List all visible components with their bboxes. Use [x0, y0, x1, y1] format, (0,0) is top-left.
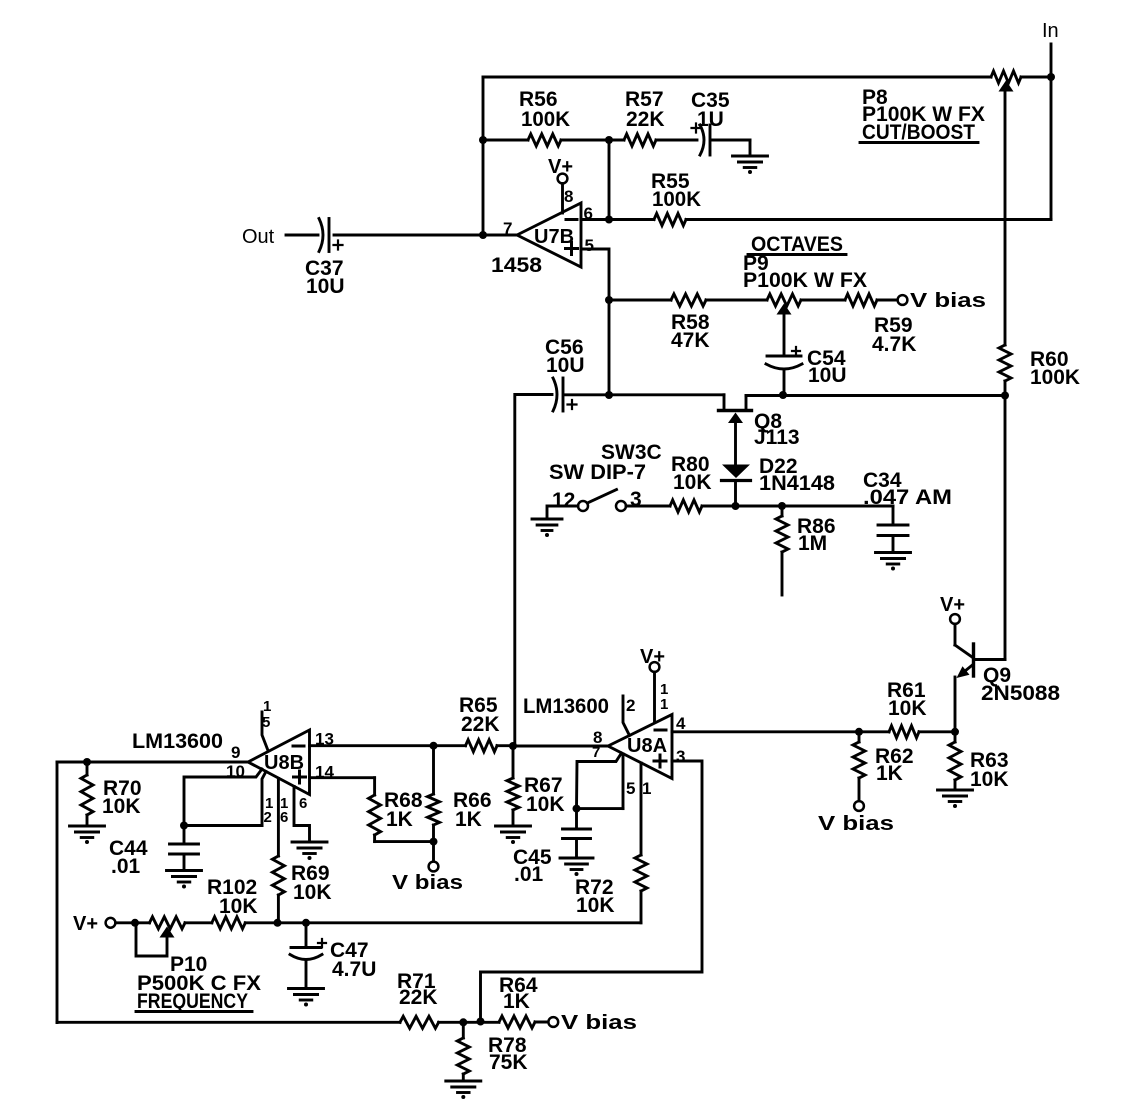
- resistor R63: [954, 732, 957, 742]
- svg-text:22K: 22K: [461, 713, 500, 736]
- svg-text:10K: 10K: [576, 894, 615, 917]
- svg-text:1: 1: [642, 779, 651, 798]
- svg-text:.01: .01: [514, 863, 544, 886]
- svg-text:V bias: V bias: [392, 872, 463, 894]
- resistor R72: [635, 855, 647, 891]
- wire R56/R57 junction down to pin6: [608, 140, 611, 220]
- wire In vertical: [1050, 44, 1053, 220]
- resistor R86: [776, 516, 788, 552]
- svg-text:1458: 1458: [491, 254, 542, 277]
- svg-text:1N4148: 1N4148: [759, 472, 835, 495]
- U8A pin 7 wire: [577, 753, 622, 809]
- svg-text:LM13600: LM13600: [523, 695, 609, 718]
- wire P10 wiper loop: [136, 923, 167, 956]
- svg-text:5: 5: [626, 779, 635, 798]
- wire main node y395: [564, 393, 725, 396]
- svg-text:22K: 22K: [399, 986, 438, 1009]
- resistor R57: [609, 139, 624, 142]
- capacitor C56: [553, 378, 557, 411]
- svg-text:3: 3: [676, 747, 685, 766]
- svg-text:100K: 100K: [1030, 366, 1080, 389]
- svg-text:2: 2: [626, 696, 635, 715]
- resistor R80: [626, 505, 670, 508]
- diode D22: [722, 465, 750, 479]
- svg-text:10K: 10K: [888, 697, 927, 720]
- svg-text:FREQUENCY: FREQUENCY: [137, 990, 248, 1013]
- capacitor C47: [305, 923, 308, 946]
- svg-text:5: 5: [262, 714, 270, 731]
- ground C35: [749, 140, 752, 156]
- svg-text:10K: 10K: [293, 881, 332, 904]
- resistor R59: [801, 299, 845, 302]
- svg-text:4.7K: 4.7K: [872, 333, 916, 356]
- resistor R56: [483, 139, 528, 142]
- left vertical wire: [56, 762, 59, 1023]
- U8B pin 10 wire to C44 node: [184, 769, 262, 826]
- wire left vertical from top wire: [482, 77, 485, 235]
- wire P8 wiper down to R60: [1004, 92, 1007, 346]
- capacitor C44: [183, 826, 186, 844]
- wire bottom rail: [57, 1021, 400, 1024]
- svg-text:7: 7: [592, 744, 600, 761]
- svg-text:8: 8: [564, 187, 573, 206]
- wire P9 wiper to C54: [783, 315, 786, 357]
- wire P10 to R102: [185, 921, 212, 924]
- capacitor C54: [792, 347, 800, 355]
- svg-text:CUT/BOOST: CUT/BOOST: [862, 121, 975, 144]
- op-amp U8A: [608, 715, 672, 779]
- svg-text:10U: 10U: [546, 354, 585, 377]
- wire R102 to R72: [245, 921, 641, 924]
- wire P8 to In junction: [1021, 76, 1051, 79]
- svg-text:1U: 1U: [697, 108, 724, 131]
- U8B pin 6 wire to ground: [294, 787, 310, 842]
- svg-text:47K: 47K: [671, 329, 710, 352]
- svg-text:1: 1: [660, 696, 668, 713]
- svg-text:V+: V+: [940, 594, 965, 616]
- potentiometer P10: [150, 917, 186, 929]
- wire V+ to P10: [116, 921, 150, 924]
- svg-text:10K: 10K: [673, 471, 712, 494]
- resistor R70: [86, 762, 89, 775]
- svg-text:P100K W FX: P100K W FX: [743, 269, 867, 292]
- node V bias at R59: [898, 295, 908, 305]
- op-amp U8B: [248, 730, 310, 795]
- U8A pin 1 wire to R72: [640, 763, 643, 855]
- wire U8B pin13 to R65: [310, 744, 466, 747]
- resistor R64: [499, 1016, 535, 1028]
- resistor R55: [581, 218, 654, 221]
- svg-text:2: 2: [264, 809, 272, 826]
- svg-text:1K: 1K: [503, 990, 530, 1013]
- resistor R62: [858, 732, 861, 742]
- U8B pin 15: [262, 712, 268, 751]
- wire top feedback: [483, 76, 991, 79]
- svg-text:10K: 10K: [970, 768, 1009, 791]
- svg-text:3: 3: [630, 488, 642, 511]
- resistor R66: [432, 746, 435, 794]
- resistor R60: [999, 345, 1011, 381]
- wire Out to C37: [286, 234, 318, 237]
- svg-text:1K: 1K: [876, 762, 903, 785]
- U8A pin 5 wire: [622, 754, 625, 809]
- transistor Q8 JFET: [723, 395, 726, 410]
- svg-text:6: 6: [299, 795, 307, 812]
- svg-text:10K: 10K: [102, 795, 141, 818]
- wire U7B pin5 down: [581, 249, 609, 395]
- potentiometer P8: [991, 71, 1021, 83]
- wire C56 left + vertical down: [515, 395, 552, 747]
- resistor R68: [373, 778, 376, 795]
- resistor R102: [212, 917, 245, 929]
- svg-text:1M: 1M: [798, 532, 827, 555]
- svg-text:9: 9: [231, 743, 240, 762]
- U8B pin 12 wire: [262, 772, 266, 826]
- U8B pin 16 wire to R69: [277, 779, 280, 857]
- svg-text:10U: 10U: [808, 364, 847, 387]
- svg-text:.01: .01: [111, 855, 141, 878]
- svg-text:10U: 10U: [306, 275, 345, 298]
- svg-text:J113: J113: [754, 426, 800, 449]
- svg-text:100K: 100K: [521, 108, 570, 131]
- svg-text:2N5088: 2N5088: [981, 682, 1060, 705]
- resistor R58: [609, 299, 671, 302]
- svg-text:V bias: V bias: [818, 813, 894, 835]
- U8A pin 2 stub: [623, 696, 630, 736]
- svg-text:5: 5: [585, 236, 594, 255]
- wire U8B pin14 to R68: [310, 776, 375, 779]
- resistor R78: [462, 1022, 465, 1038]
- svg-text:10K: 10K: [219, 895, 258, 918]
- svg-text:12: 12: [552, 489, 575, 512]
- svg-text:100K: 100K: [652, 188, 701, 211]
- resistor R65: [466, 740, 498, 752]
- svg-text:4: 4: [676, 714, 686, 733]
- capacitor C35: [692, 124, 701, 133]
- svg-text:V+: V+: [73, 913, 98, 935]
- svg-text:SW DIP-7: SW DIP-7: [549, 461, 646, 484]
- svg-text:1K: 1K: [455, 808, 482, 831]
- potentiometer P9: [767, 294, 801, 306]
- svg-text:1: 1: [263, 698, 271, 715]
- wire SW3C to ground: [547, 506, 578, 519]
- node V bias below R66: [432, 842, 435, 862]
- node V bias bottom: [548, 1017, 558, 1027]
- op-amp U7B: [517, 203, 581, 267]
- svg-text:75K: 75K: [489, 1051, 528, 1074]
- svg-text:22K: 22K: [626, 108, 665, 131]
- resistor R71: [400, 1016, 439, 1028]
- wire Q9 base to R60 line: [975, 658, 1005, 661]
- wire U8B output: [57, 761, 248, 764]
- svg-text:U7B: U7B: [534, 226, 574, 248]
- wire U8A pin3 loop: [481, 761, 703, 1022]
- wire C37 to U7B pin7: [334, 234, 517, 237]
- wire U8A pin4 to R61: [672, 730, 889, 733]
- svg-text:In: In: [1042, 20, 1059, 42]
- svg-text:.047 AM: .047 AM: [863, 486, 952, 509]
- svg-text:V bias: V bias: [910, 290, 986, 312]
- svg-text:1K: 1K: [386, 808, 413, 831]
- wire D22 node to C34: [736, 505, 894, 508]
- svg-text:Out: Out: [242, 226, 275, 248]
- wire R68 to V bias node: [375, 840, 434, 843]
- resistor R67: [512, 746, 515, 778]
- capacitor C34: [892, 506, 895, 524]
- svg-text:4.7U: 4.7U: [332, 958, 376, 981]
- capacitor C37: [319, 219, 323, 252]
- wire C56 node to U8A output: [513, 745, 608, 748]
- svg-text:6: 6: [280, 809, 288, 826]
- svg-text:10K: 10K: [526, 793, 565, 816]
- resistor R61: [889, 726, 919, 738]
- capacitor C45: [573, 805, 581, 813]
- svg-text:V bias: V bias: [561, 1012, 637, 1034]
- svg-text:LM13600: LM13600: [132, 730, 223, 753]
- resistor R69: [272, 856, 284, 895]
